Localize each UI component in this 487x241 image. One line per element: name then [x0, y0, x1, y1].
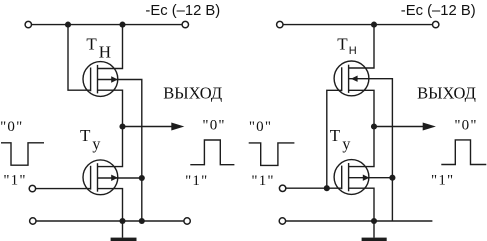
svg-text:ВЫХОД: ВЫХОД	[417, 83, 476, 102]
svg-text:Н: Н	[349, 45, 357, 57]
svg-text:у: у	[342, 136, 350, 153]
svg-text:"1": "1"	[251, 173, 274, 189]
svg-text:"0": "0"	[249, 119, 272, 135]
svg-text:у: у	[92, 136, 100, 153]
svg-text:"0": "0"	[0, 119, 23, 135]
svg-text:-Ec (–12 В): -Ec (–12 В)	[401, 3, 476, 19]
svg-text:"1": "1"	[431, 173, 454, 189]
svg-text:"1": "1"	[185, 173, 208, 189]
svg-text:Т: Т	[80, 126, 91, 145]
svg-text:"0": "0"	[202, 117, 225, 133]
svg-text:"0": "0"	[454, 117, 477, 133]
svg-text:Н: Н	[99, 42, 111, 61]
svg-text:"1": "1"	[3, 173, 26, 189]
svg-text:Т: Т	[337, 35, 348, 54]
svg-text:Т: Т	[330, 126, 341, 145]
svg-text:Т: Т	[86, 35, 97, 54]
svg-text:-Ec (–12 В): -Ec (–12 В)	[145, 3, 220, 19]
svg-text:ВЫХОД: ВЫХОД	[163, 83, 222, 102]
